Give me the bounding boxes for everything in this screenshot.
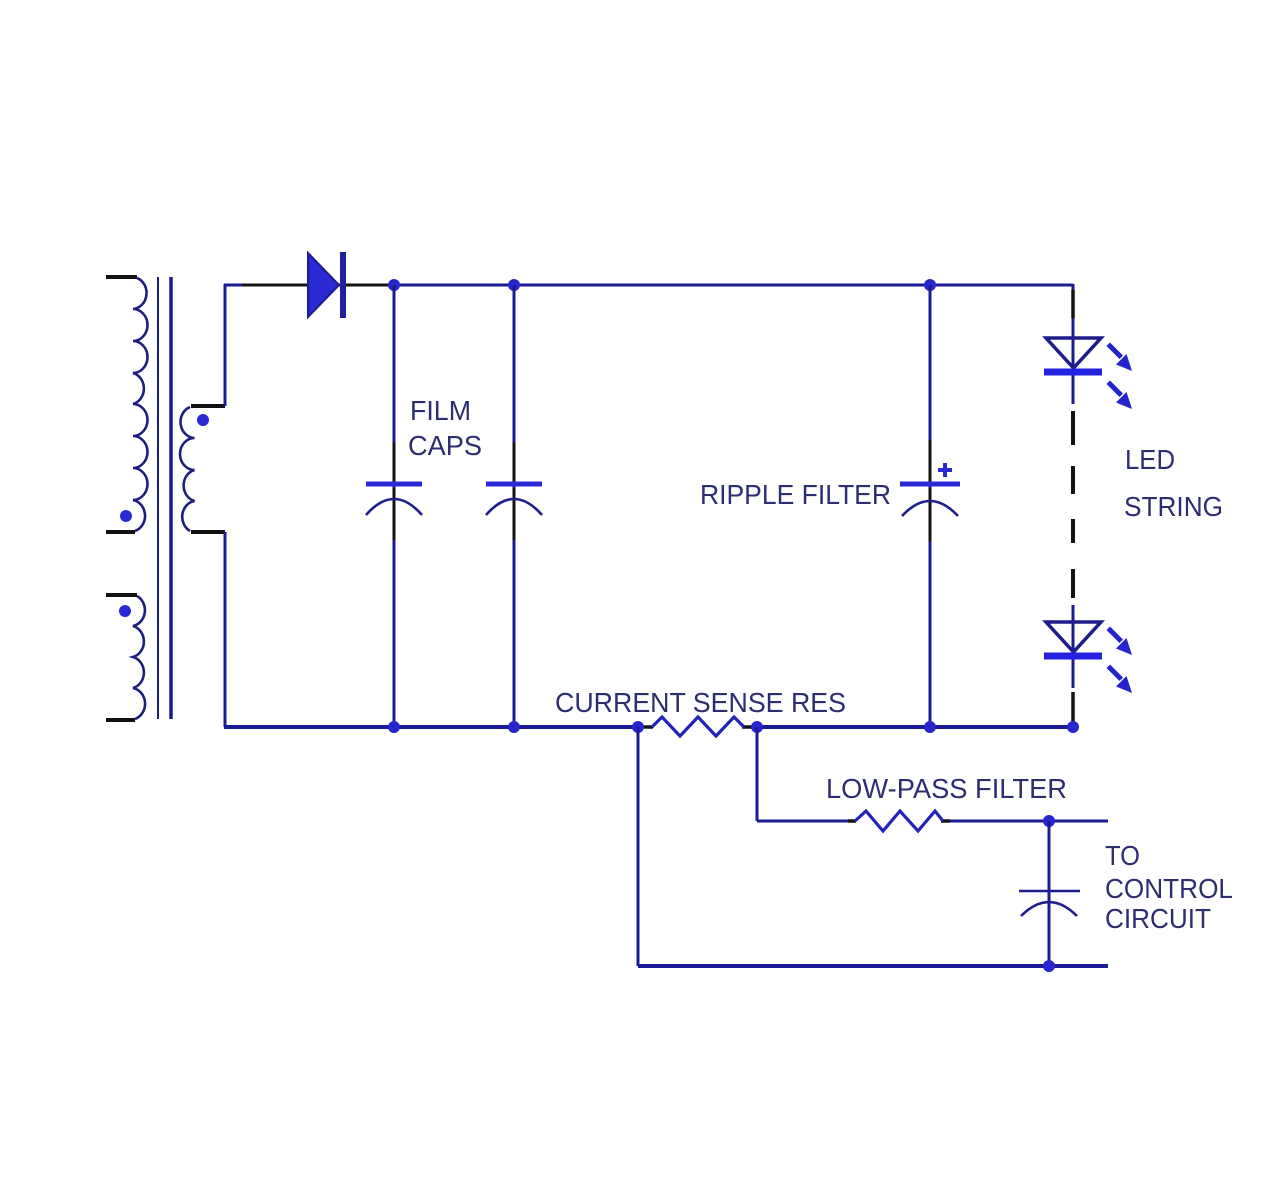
- node: R2 / C4 junction: [1043, 815, 1055, 827]
- secondary phase dot: [197, 414, 209, 426]
- node: rail / C2 junction: [508, 279, 520, 291]
- primary upper winding: [106, 277, 148, 532]
- capacitor C3 (ripple filter, polarized): [900, 285, 960, 727]
- wire R1 left to bottom bus: [637, 727, 640, 966]
- capacitor C4 (control filter): [1019, 821, 1080, 966]
- wire low-pass row left: [757, 820, 850, 823]
- node: R1 left junction: [632, 721, 644, 733]
- node: rail / C1 junction: [388, 279, 400, 291]
- node: LED string bottom junction: [1067, 721, 1079, 733]
- capacitor C2 (film): [486, 285, 542, 727]
- wire secondary top to rail: [224, 284, 227, 406]
- node: rail / C3 junction: [924, 279, 936, 291]
- label TO CONTROL CIRCUIT: [1105, 840, 1233, 934]
- node: C2 bottom junction: [508, 721, 520, 733]
- primary upper phase dot: [120, 510, 132, 522]
- node: C3 bottom junction: [924, 721, 936, 733]
- wire low-pass row right: [946, 820, 1108, 823]
- node: C4 bottom junction: [1043, 960, 1055, 972]
- capacitor C1 (film): [366, 285, 422, 727]
- svg-text:CIRCUIT: CIRCUIT: [1105, 903, 1211, 934]
- transformer T1: [106, 277, 225, 720]
- wire dashed LED string: [1071, 411, 1075, 598]
- wire bottom rail right part: [755, 725, 1073, 729]
- svg-text:CAPS: CAPS: [408, 430, 482, 461]
- LED D2 arrows: [1107, 343, 1133, 410]
- diode D1: [308, 252, 343, 318]
- svg-text:LOW-PASS FILTER: LOW-PASS FILTER: [826, 773, 1067, 804]
- wire left vertical (secondary bottom to rail): [224, 532, 227, 727]
- svg-text:FILM: FILM: [410, 395, 471, 426]
- svg-text:STRING: STRING: [1124, 491, 1223, 522]
- LED D3: [1044, 605, 1132, 725]
- svg-text:CONTROL: CONTROL: [1105, 873, 1233, 904]
- wire bottom bus: [638, 964, 1108, 968]
- svg-text:CURRENT SENSE RES: CURRENT SENSE RES: [555, 687, 846, 718]
- wire black stub right of diode: [346, 284, 391, 287]
- LED D3 arrows: [1107, 627, 1133, 694]
- primary lower winding: [106, 595, 145, 720]
- wire black stub left of diode: [242, 284, 308, 287]
- primary lower phase dot: [119, 605, 131, 617]
- LED D2: [1044, 338, 1132, 409]
- wire bottom rail left part: [224, 725, 640, 729]
- wire LED string drop (top): [1072, 284, 1075, 339]
- resistor R1 (current sense): [644, 717, 757, 736]
- node: C1 bottom junction: [388, 721, 400, 733]
- svg-text:TO: TO: [1105, 840, 1140, 871]
- secondary winding: [180, 406, 225, 532]
- label FILM CAPS: [408, 395, 482, 461]
- label LED STRING: [1124, 444, 1223, 522]
- resistor R2 (low-pass filter): [848, 811, 950, 831]
- wire top rail: [224, 284, 1073, 287]
- transformer core: [158, 277, 171, 719]
- node: R1 right junction: [751, 721, 763, 733]
- svg-text:RIPPLE FILTER: RIPPLE FILTER: [700, 479, 891, 510]
- plus polarity mark: [938, 463, 952, 477]
- svg-text:LED: LED: [1125, 444, 1175, 475]
- wire R1 right down: [756, 727, 759, 821]
